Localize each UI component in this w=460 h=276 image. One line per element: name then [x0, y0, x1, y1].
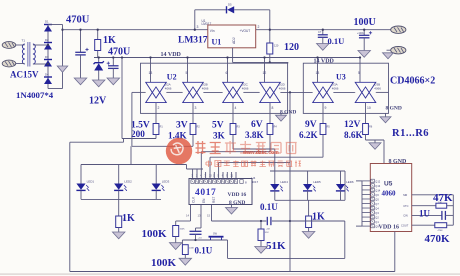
svg-text:9: 9 — [325, 106, 327, 110]
svg-text:1U: 1U — [419, 208, 431, 218]
svg-text:100U: 100U — [354, 17, 376, 28]
wire RST down — [211, 205, 213, 222]
wire to 1K right — [308, 200, 310, 216]
wire U2D to resistor — [269, 103, 271, 124]
resistor R6 8.6K — [363, 124, 369, 135]
svg-text:3: 3 — [195, 106, 197, 110]
wire U2C-U2D — [244, 91, 260, 93]
resistor 100K first — [173, 226, 179, 237]
wire ADJ down — [232, 48, 234, 63]
svg-text:1K: 1K — [122, 213, 135, 224]
wire 100K2 gnd — [184, 255, 186, 259]
wire outer box left — [69, 142, 71, 271]
svg-text:4: 4 — [235, 106, 237, 110]
svg-text:5V: 5V — [212, 121, 224, 131]
svg-text:470U: 470U — [108, 47, 130, 58]
wire C4 to ground — [363, 38, 365, 51]
wire pin stub — [235, 172, 237, 179]
wire main positive rail — [63, 29, 392, 31]
svg-text:R5: R5 — [327, 126, 331, 129]
wire secondary top to bridge — [33, 44, 48, 46]
AC input terminal J2 — [2, 60, 21, 67]
svg-text:1K: 1K — [103, 35, 116, 46]
IC U3 CD4066 box — [303, 63, 388, 113]
svg-text:2: 2 — [158, 106, 160, 110]
resistor R2 1.4K — [190, 124, 196, 135]
svg-text:CLK: CLK — [192, 196, 196, 203]
ground C4 — [358, 51, 371, 58]
ground zener — [92, 80, 105, 87]
svg-text:10: 10 — [209, 174, 213, 178]
ground 100K first — [169, 243, 182, 250]
wire LED5 anode — [307, 171, 309, 184]
svg-text:AC15V: AC15V — [10, 70, 39, 80]
ground C2 — [107, 78, 120, 85]
wire to 1K left — [118, 199, 120, 216]
svg-text:14 VDD: 14 VDD — [161, 52, 182, 58]
wire EN down — [200, 205, 202, 229]
wire U5 row3 left — [412, 214, 442, 216]
wire feedback top right — [234, 9, 270, 11]
wire inner rail — [81, 164, 187, 166]
svg-text:0.1U: 0.1U — [260, 202, 278, 212]
wire LED3 anode — [155, 165, 157, 184]
4017 output pin squares — [191, 180, 238, 184]
wire LED4 anode — [274, 171, 276, 184]
svg-text:4060: 4060 — [382, 190, 397, 198]
wire h6 to pin — [200, 152, 202, 179]
wire gnd stub — [374, 140, 376, 143]
wire h4 — [132, 145, 193, 147]
svg-text:D2: D2 — [45, 38, 49, 42]
wire U5 stub long2 — [356, 225, 362, 227]
wire sub box bottom — [228, 257, 345, 259]
wire R6 to U5 — [366, 139, 385, 141]
resistor 1K right — [306, 216, 312, 228]
svg-text:12V: 12V — [89, 96, 107, 107]
wire LED5 cathode — [307, 191, 309, 200]
wire 100K1 top — [175, 221, 177, 226]
svg-text:4066: 4066 — [242, 87, 249, 91]
wire into U2A — [132, 91, 146, 93]
svg-text:4066: 4066 — [165, 87, 172, 91]
svg-text:VDD 16: VDD 16 — [379, 225, 400, 231]
svg-text:100K: 100K — [142, 228, 168, 240]
svg-text:5: 5 — [358, 71, 360, 75]
wire h8 — [219, 162, 290, 164]
LED LED4 — [270, 180, 288, 191]
wire h2 outer box top — [70, 141, 124, 143]
svg-text:Q14: Q14 — [375, 188, 380, 192]
capacitor 1U — [442, 211, 446, 220]
svg-text:5: 5 — [186, 71, 188, 75]
resistor 470K horizontal — [435, 223, 447, 228]
wire LED6 anode — [340, 171, 342, 184]
wire to R 1K — [97, 30, 99, 40]
svg-text:U5: U5 — [384, 181, 393, 188]
wire R2 to h4 — [192, 135, 194, 147]
svg-text:Q2: Q2 — [375, 215, 379, 219]
wire feedback left — [194, 10, 196, 30]
wire ADJ bus — [233, 61, 288, 63]
wire pin stub — [226, 172, 228, 179]
svg-text:D1: D1 — [45, 20, 49, 24]
wire bridge bottom — [48, 88, 63, 90]
svg-text:C7: C7 — [318, 30, 322, 34]
svg-text:13: 13 — [198, 214, 202, 218]
wire U2B to resistor — [192, 103, 194, 124]
wire h7 to pin — [209, 157, 211, 178]
wire EN jog — [196, 227, 202, 229]
wire LED6 cathode — [340, 191, 342, 200]
wire U2A to resistor — [155, 103, 157, 124]
wire right box side — [344, 171, 346, 200]
wire LED3 cathode — [155, 190, 157, 199]
wire sub box top link — [290, 220, 345, 222]
ground 4017 — [226, 208, 238, 215]
ground C3 — [317, 44, 330, 51]
svg-text:8 GND: 8 GND — [280, 110, 296, 116]
wire C2 to ground — [112, 68, 114, 78]
wire control U3A — [317, 58, 319, 83]
wire U5 row4 left — [412, 224, 435, 226]
svg-text:47K: 47K — [433, 192, 453, 204]
capacitor C3 0.1U — [318, 35, 328, 38]
svg-text:15: 15 — [207, 214, 211, 218]
svg-text:ADJ: ADJ — [232, 37, 236, 44]
svg-text:2: 2 — [258, 25, 260, 29]
svg-text:Q12: Q12 — [375, 179, 380, 183]
wire U3A-U3B — [334, 91, 355, 93]
wire C3 to ground — [322, 37, 324, 43]
svg-text:LED4: LED4 — [280, 180, 288, 184]
wire VDD rail — [94, 57, 361, 59]
wire U5 row1 — [412, 194, 454, 196]
svg-text:4066: 4066 — [374, 87, 381, 91]
svg-text:LED2: LED2 — [124, 180, 132, 184]
wire feedback top left — [195, 9, 227, 11]
wire 100K1 gnd — [175, 237, 177, 243]
resistor R1 200 — [153, 124, 159, 135]
wire U5 stub long1 — [356, 180, 362, 182]
wire LED1 anode — [80, 165, 82, 184]
resistor 1K — [95, 40, 101, 51]
svg-text:CTC: CTC — [403, 204, 408, 208]
svg-text:13: 13 — [149, 71, 153, 75]
U5 left pin squares — [371, 179, 381, 228]
wire secondary bottom to bridge — [33, 63, 48, 65]
LED LED2 — [114, 180, 132, 191]
resistor 120 — [267, 43, 273, 54]
svg-text:3.8K: 3.8K — [245, 130, 264, 140]
svg-text:3K: 3K — [213, 130, 226, 140]
svg-text:0.1U: 0.1U — [328, 36, 345, 46]
wire R4 down — [269, 135, 271, 152]
svg-text:U3: U3 — [336, 73, 346, 82]
wire h6 — [201, 151, 270, 153]
svg-text:6.2K: 6.2K — [299, 130, 318, 140]
wire adj drop — [287, 61, 289, 64]
wire h7 — [210, 156, 323, 158]
watermark logo circle — [166, 138, 192, 164]
ground 100K second — [179, 258, 192, 265]
wire to C1 — [80, 30, 82, 53]
AC input terminal J1 — [2, 42, 21, 49]
wire to C5 — [195, 228, 197, 231]
diode D1 — [44, 25, 52, 32]
svg-text:Q7: Q7 — [375, 202, 379, 206]
capacitor C1 470U — [75, 48, 88, 55]
svg-text:Q5: Q5 — [375, 197, 379, 201]
wire bridge right rail — [62, 25, 64, 89]
wire 120 bottom — [269, 54, 271, 62]
wire U5 row3 right — [445, 214, 453, 216]
svg-text:470K: 470K — [425, 233, 451, 245]
wire 100K2 top — [181, 240, 183, 245]
svg-text:+100U: +100U — [357, 32, 364, 35]
svg-text:6V: 6V — [251, 120, 263, 130]
svg-text:T1: T1 — [22, 39, 26, 43]
svg-text:D4: D4 — [45, 73, 49, 77]
svg-text:×2: ×2 — [425, 76, 436, 87]
wire U5 bottom down — [394, 232, 396, 272]
wire R5 down — [322, 135, 324, 158]
svg-text:1N4007*4: 1N4007*4 — [16, 90, 54, 100]
wire pin stub — [213, 172, 215, 179]
svg-text:R1...R6: R1...R6 — [392, 128, 429, 139]
ground C1 — [74, 78, 87, 85]
analog switch U2C — [222, 71, 248, 110]
wire sub box right — [344, 221, 346, 258]
svg-text:8.6K: 8.6K — [344, 130, 363, 140]
svg-text:SW: SW — [213, 232, 218, 235]
svg-text:D5: D5 — [228, 3, 232, 7]
wire inner rail end — [186, 165, 188, 170]
svg-text:8 GND: 8 GND — [386, 105, 402, 111]
diode D4 — [44, 77, 52, 84]
LED LED6 — [336, 180, 354, 191]
wire h8 to pin — [218, 163, 220, 179]
svg-text:U1: U1 — [212, 37, 222, 46]
wire LED2 cathode — [118, 190, 120, 199]
svg-text:4066: 4066 — [332, 87, 339, 91]
wire bottom rail — [70, 271, 395, 273]
svg-text:R6: R6 — [369, 126, 373, 129]
wire U5 row2 left — [412, 205, 436, 207]
wire U5 row2 right — [447, 205, 454, 207]
ground U3 — [380, 117, 391, 123]
ground 1K left — [112, 232, 125, 239]
svg-text:12: 12 — [263, 71, 267, 75]
switch SW1 pushbutton — [209, 232, 224, 240]
wire pin2 up — [196, 169, 198, 179]
ground bridge — [57, 66, 68, 72]
connector GND terminal 2 — [387, 47, 406, 54]
svg-text:D3: D3 — [45, 55, 49, 59]
watermark main pseudo text — [196, 141, 297, 154]
svg-text:0.1U: 0.1U — [195, 246, 213, 256]
svg-text:R3: R3 — [237, 126, 241, 129]
wire U2A left down — [131, 92, 133, 146]
wire U3B to resistor — [365, 103, 367, 124]
LED LED5 — [303, 180, 321, 191]
analog switch U2D — [259, 71, 285, 110]
analog switch U2B — [182, 71, 208, 110]
svg-text:LED1: LED1 — [87, 180, 95, 184]
wire R3 down — [232, 135, 234, 150]
capacitor C5 — [190, 231, 203, 239]
wire 4017 gnd — [231, 205, 233, 208]
wire U2C to resistor — [232, 103, 234, 124]
wire bridge column — [47, 24, 49, 89]
svg-text:R1: R1 — [160, 126, 164, 129]
svg-text:3V: 3V — [176, 121, 188, 131]
svg-text:10: 10 — [367, 106, 371, 110]
svg-text:R2: R2 — [197, 126, 201, 129]
wire U2 gnd — [280, 113, 282, 115]
IC U4 4017 box — [189, 179, 252, 205]
ground U2 — [276, 115, 287, 121]
wire 1K right gnd — [308, 228, 310, 232]
svg-text:470K: 470K — [438, 230, 444, 232]
wire R1 to h1 — [155, 135, 157, 139]
ground 1K right — [302, 232, 315, 239]
wire to C3 — [322, 30, 324, 35]
wire to C2 — [112, 58, 114, 66]
svg-text:VIn: VIn — [210, 29, 215, 33]
wire U5 right bus — [452, 195, 454, 225]
wire right rail — [270, 170, 345, 172]
svg-text:4066: 4066 — [202, 87, 209, 91]
svg-text:+68: +68 — [266, 229, 270, 231]
svg-text:3: 3 — [197, 25, 199, 29]
wire U5 pin bus — [361, 181, 363, 226]
svg-text:51K: 51K — [266, 240, 286, 252]
svg-text:LED3: LED3 — [162, 180, 170, 184]
svg-text:+1U: +1U — [198, 237, 202, 239]
wire U2D-U3A — [281, 91, 313, 93]
capacitor C2 470U — [107, 62, 119, 69]
wire R6 down — [365, 135, 367, 141]
svg-text:COUT: COUT — [401, 224, 409, 228]
analog switch U3A — [312, 71, 338, 110]
wire h9 — [187, 168, 204, 170]
wire down to U5 — [383, 140, 385, 163]
wire 51K gnd — [260, 241, 262, 247]
wire control U2A — [150, 58, 152, 83]
wire h1 — [122, 138, 156, 140]
wire U2A-U2B — [167, 91, 183, 93]
wire to C4 — [363, 30, 365, 36]
wire control U2C — [227, 58, 229, 83]
wire LED4 cathode — [274, 191, 276, 200]
svg-text:VDD 16: VDD 16 — [228, 192, 247, 198]
wire U3A to resistor — [322, 103, 324, 124]
svg-text:RST: RST — [212, 197, 216, 203]
LED LED3 — [152, 180, 170, 191]
svg-text:Q13: Q13 — [375, 184, 380, 188]
ground near U5 — [369, 143, 381, 150]
analog switch U3B — [355, 71, 381, 110]
wire jog1 — [123, 139, 125, 143]
resistor R5 6.2K — [320, 124, 326, 135]
svg-text:120: 120 — [284, 42, 299, 53]
wire feedback right — [269, 10, 271, 43]
svg-text:U2: U2 — [167, 73, 177, 82]
svg-text:4066: 4066 — [279, 87, 286, 91]
U5 left pin stubs — [362, 181, 371, 226]
svg-text:51K: 51K — [265, 232, 269, 234]
wire C5 down — [195, 234, 197, 240]
svg-text:Q6: Q6 — [375, 193, 379, 197]
svg-text:Q9: Q9 — [375, 225, 379, 229]
wire CLK to 100K — [176, 220, 191, 222]
wire left cathode rail — [81, 198, 161, 200]
wire VDD drop left — [121, 58, 123, 139]
svg-text:13: 13 — [316, 71, 320, 75]
svg-text:6: 6 — [226, 71, 228, 75]
pin square 12 — [240, 180, 243, 184]
ground terminal2 — [383, 53, 394, 59]
wire long vertical — [289, 92, 291, 271]
wire control U2D — [264, 58, 266, 83]
wire switch down — [227, 240, 229, 258]
wire pin stub — [231, 172, 233, 179]
resistor 51K — [258, 229, 264, 241]
op-amp U1 LM317 regulator box — [208, 25, 256, 48]
svg-text:9V: 9V — [305, 120, 317, 130]
wire pin1 up — [192, 169, 194, 179]
resistor 100K second — [182, 245, 188, 255]
LED LED1 — [76, 180, 94, 191]
wire RST right — [212, 220, 267, 222]
svg-text:12V: 12V — [344, 120, 361, 130]
wire zener to ground — [98, 71, 100, 81]
diode D3 — [44, 60, 52, 67]
svg-text:470U: 470U — [66, 15, 90, 26]
svg-text:4017: 4017 — [252, 180, 259, 184]
svg-text:LM317: LM317 — [178, 36, 208, 46]
capacitor C6 0.1U — [266, 217, 271, 231]
wire C1 to ground — [80, 55, 82, 78]
wire right cathode rail — [275, 199, 345, 201]
svg-text:+VOUT: +VOUT — [240, 29, 251, 33]
wire pin stub — [205, 172, 207, 179]
wire LED1 cathode — [80, 190, 82, 199]
resistor R3 3K — [230, 124, 236, 135]
wire 51K top — [260, 221, 262, 229]
svg-text:Q1: Q1 — [375, 220, 379, 224]
wire to zener — [98, 58, 100, 63]
watermark slogan pseudo text — [206, 161, 301, 168]
resistor R4 3.8K — [267, 124, 273, 135]
wire U3B out — [376, 91, 388, 93]
svg-text:CIN: CIN — [403, 214, 408, 218]
svg-text:LED5: LED5 — [313, 180, 321, 184]
svg-text:MR: MR — [403, 193, 407, 197]
wire switch line — [182, 239, 227, 241]
svg-text:8: 8 — [272, 106, 274, 110]
IC U5 4060 box — [370, 164, 411, 232]
svg-text:R4: R4 — [274, 126, 278, 129]
svg-text:200: 200 — [131, 129, 145, 139]
svg-text:Q4: Q4 — [375, 206, 379, 210]
zener diode 12V — [94, 61, 104, 70]
wire control U3B — [359, 58, 361, 83]
svg-text:14: 14 — [186, 214, 190, 218]
wire LED2 anode — [118, 165, 120, 184]
wire C6 right — [272, 220, 290, 222]
